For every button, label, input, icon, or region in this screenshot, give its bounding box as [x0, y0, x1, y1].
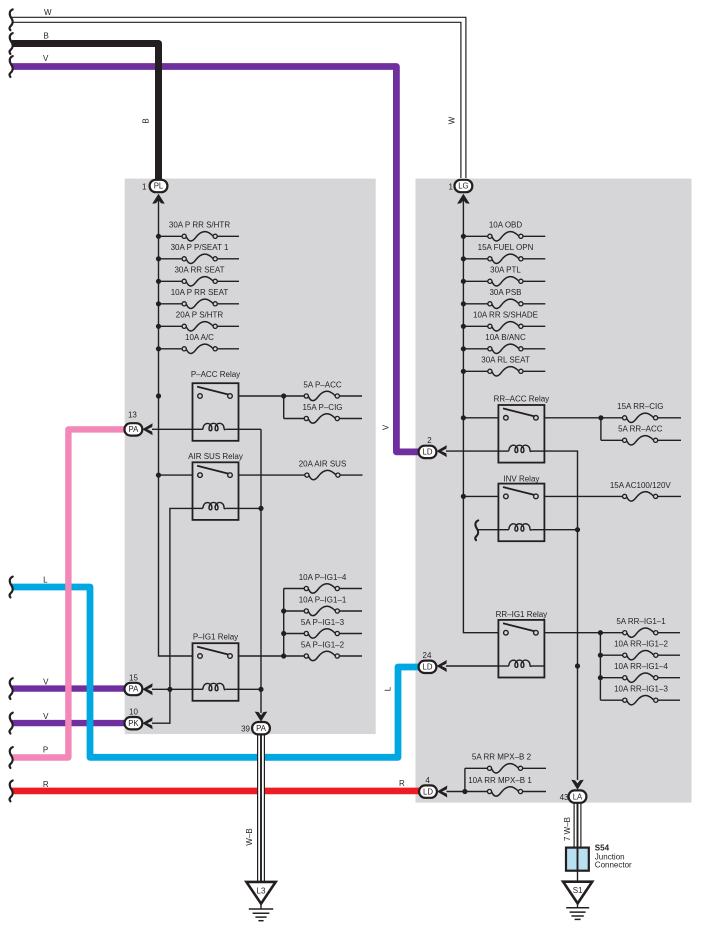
svg-text:P–ACC Relay: P–ACC Relay: [191, 370, 240, 379]
fuse 20A P S/HTR: [159, 325, 184, 327]
svg-text:L3: L3: [257, 886, 266, 895]
svg-text:13: 13: [128, 410, 137, 419]
svg-text:43: 43: [560, 793, 569, 802]
svg-text:V: V: [43, 712, 49, 721]
svg-text:39: 39: [241, 724, 250, 733]
svg-text:W: W: [447, 116, 456, 124]
node: bus to RR-ACC relay switch: [461, 415, 466, 420]
svg-text:4: 4: [425, 776, 430, 785]
svg-text:5A P–IG1–2: 5A P–IG1–2: [301, 640, 345, 649]
ground S1: [563, 882, 592, 904]
right relay block panel: [416, 179, 692, 803]
svg-text:10A RR–IG1–3: 10A RR–IG1–3: [614, 684, 668, 693]
fuse 15A RR-CIG: [601, 417, 623, 419]
wire: P-IG1 switch output: [239, 655, 284, 657]
relay P-IG1: box with switch contacts + coil: [193, 643, 239, 701]
ground feeder wire down to connector PA 39: [260, 429, 262, 713]
svg-text:10A RR S/SHADE: 10A RR S/SHADE: [473, 311, 538, 320]
connector PA pin 13: [125, 423, 143, 435]
wire: connector LD 24 to RR-IG1 coil: [446, 665, 498, 667]
wire: AIR SUS coil left to PA 15 / PK 10 feeder: [152, 508, 193, 723]
connector PA pin 39: [252, 722, 270, 734]
svg-text:10A P–IG1–1: 10A P–IG1–1: [299, 595, 347, 604]
svg-text:20A AIR SUS: 20A AIR SUS: [299, 460, 347, 469]
wire W-B from connector PA 39 to ground L3: [257, 734, 265, 882]
connector PK pin 10: [125, 717, 143, 729]
relay RR-IG1: box with switch contacts + coil: [498, 620, 544, 678]
svg-text:1: 1: [142, 182, 147, 191]
node: PA15/PK10/AIR SUS coil junction: [167, 687, 172, 692]
svg-text:R: R: [43, 780, 49, 789]
svg-text:15A P–CIG: 15A P–CIG: [302, 403, 342, 412]
svg-text:V: V: [43, 677, 49, 686]
svg-text:1: 1: [449, 182, 454, 191]
fuse 20A AIR SUS: [239, 474, 306, 476]
svg-text:Connector: Connector: [595, 861, 632, 870]
connector LD pin 4 arrow: [437, 786, 447, 798]
fuse 30A P P/SEAT 1: [159, 258, 184, 260]
connector LD pin 24: [419, 661, 437, 673]
node: bus to AIR SUS relay switch: [156, 473, 161, 478]
fuse 30A PSB: [463, 303, 488, 305]
wire break symbol, L wire: [10, 577, 13, 598]
junction connector S54: [566, 848, 589, 871]
connector LA pin 43 arrow: [571, 780, 584, 790]
svg-text:S54: S54: [595, 844, 610, 853]
wire P (pink): bottom-left entry up to connector PA 13: [12, 429, 126, 757]
connector PA pin 15: [125, 683, 143, 695]
wire bus to RR-ACC switch: [463, 417, 498, 419]
wire V (purple) to connector PA 15: [12, 685, 126, 691]
svg-text:INV Relay: INV Relay: [503, 475, 539, 484]
fuse 10A A/C: [159, 348, 184, 350]
wire: connector LD 2 to RR-ACC coil: [446, 450, 498, 452]
svg-text:AIR SUS Relay: AIR SUS Relay: [188, 452, 243, 461]
svg-text:P–IG1 Relay: P–IG1 Relay: [193, 632, 238, 641]
svg-text:2: 2: [427, 436, 432, 445]
fuse 30A PTL: [463, 280, 488, 282]
svg-text:S1: S1: [573, 886, 583, 895]
svg-text:30A RL SEAT: 30A RL SEAT: [481, 356, 530, 365]
wire: INV coil right to ground feeder: [544, 529, 578, 531]
wire: RR-ACC coil right to ground feeder: [544, 451, 578, 780]
relay RR-ACC: box with switch contacts + coil: [498, 405, 544, 463]
wire: P-ACC relay switch output: [239, 395, 284, 397]
svg-text:V: V: [381, 424, 390, 430]
svg-text:10A P RR SEAT: 10A P RR SEAT: [171, 288, 229, 297]
svg-text:P: P: [43, 746, 48, 755]
svg-text:15: 15: [129, 673, 138, 682]
wire R (red): bottom entry across to connector LD 4: [12, 788, 421, 795]
connector PK pin 10 arrow: [142, 717, 152, 729]
node: RR-ACC fuse feed: [598, 415, 603, 420]
svg-text:5A P–IG1–3: 5A P–IG1–3: [301, 618, 345, 627]
feeder for P-IG1 fuses: [283, 589, 285, 657]
svg-text:B: B: [44, 32, 49, 41]
svg-text:7 W–B: 7 W–B: [563, 817, 572, 841]
wire break symbol, W wire: [10, 9, 13, 30]
svg-text:10A RR–IG1–4: 10A RR–IG1–4: [614, 662, 668, 671]
svg-text:W: W: [44, 8, 52, 17]
fuse 10A P RR SEAT: [159, 303, 184, 305]
fuse 10A P–IG1–4: [284, 588, 305, 590]
relay AIR SUS: box with switch contacts + coil: [193, 462, 239, 520]
node: bus to INV relay switch: [461, 494, 466, 499]
svg-text:10A B/ANC: 10A B/ANC: [485, 333, 526, 342]
node: P-ACC fuse feed: [281, 393, 286, 398]
bus from connector PL 1 down to P-IG1 relay: [159, 196, 193, 656]
ground L3: [246, 882, 275, 904]
wire break symbol, INV coil: [475, 520, 478, 540]
feeder up to 5A RR MPX-B 2: [464, 768, 466, 791]
svg-text:L: L: [43, 576, 48, 585]
bus from connector LG 1 down to RR-IG1 relay: [463, 196, 498, 633]
fuse 30A RL SEAT: [463, 370, 488, 372]
fuse 10A RR–IG1–2: [600, 654, 623, 656]
svg-text:L: L: [383, 686, 392, 691]
connector PL pin 1 arrow: [152, 194, 165, 204]
svg-text:15A RR–CIG: 15A RR–CIG: [617, 402, 663, 411]
node: AIR SUS coil / ground feeder: [258, 506, 263, 511]
svg-text:30A P P/SEAT 1: 30A P P/SEAT 1: [171, 243, 229, 252]
fuse 5A RR-ACC: [601, 439, 623, 441]
left relay block panel: [125, 179, 376, 735]
svg-text:LG: LG: [458, 182, 468, 191]
node: RR MPX feed: [462, 789, 467, 794]
wire: RR-IG1 switch output: [544, 632, 601, 634]
wire break symbol, R wire: [10, 781, 13, 802]
svg-text:B: B: [142, 118, 151, 123]
svg-text:30A RR SEAT: 30A RR SEAT: [174, 266, 224, 275]
node: P-IG1 coil / ground feeder: [258, 687, 263, 692]
connector PA pin 15 arrow: [142, 683, 152, 695]
fuse 10A OBD: [463, 235, 488, 237]
svg-text:PA: PA: [256, 724, 267, 733]
fuse 5A RR–IG1–1: [600, 632, 623, 634]
wire L (cyan): left entry, down, across bottom, up to connector LD 24: [12, 587, 419, 757]
connector LA pin 43: [569, 790, 587, 802]
connector LG pin 1: [455, 180, 473, 192]
relay INV: box with switch contacts + coil: [498, 484, 544, 542]
svg-text:15A FUEL OPN: 15A FUEL OPN: [478, 243, 534, 252]
wire break symbol, V wire (PA 15): [10, 678, 13, 699]
svg-text:RR–IG1 Relay: RR–IG1 Relay: [496, 610, 548, 619]
fuse 15A FUEL OPN: [463, 258, 488, 260]
wire V (purple, top): entry across top, down to connector LD 2: [12, 67, 419, 452]
fuse 10A P–IG1–1: [284, 610, 305, 612]
node: bus to P-ACC relay switch: [156, 393, 161, 398]
connector PA pin 39 arrow: [255, 712, 268, 722]
svg-text:15A AC100/120V: 15A AC100/120V: [610, 481, 672, 490]
wire: RR-ACC switch output: [544, 417, 601, 419]
wire bus to INV switch: [463, 495, 498, 497]
wire S54 to ground S1: [577, 871, 579, 882]
node: INV coil / ground feeder: [575, 527, 580, 532]
svg-text:W–B: W–B: [245, 828, 254, 845]
svg-text:10A RR–IG1–2: 10A RR–IG1–2: [614, 639, 668, 648]
wire W-B from connector LA 43 to junction connector S54: [573, 803, 575, 848]
fuse 30A P RR S/HTR: [159, 235, 184, 237]
svg-text:10: 10: [129, 707, 138, 716]
connector LD pin 4: [419, 785, 437, 797]
svg-text:30A PSB: 30A PSB: [489, 288, 521, 297]
fuse 5A P–IG1–3: [284, 633, 305, 635]
svg-text:R: R: [399, 779, 405, 788]
relay P-ACC: box with switch contacts + coil: [193, 383, 239, 441]
svg-text:LD: LD: [423, 663, 433, 672]
connector PA pin 13 arrow: [142, 423, 152, 435]
fuse 10A RR–IG1–4: [600, 677, 623, 679]
connector LD pin 2: [419, 446, 437, 458]
svg-text:5A P–ACC: 5A P–ACC: [303, 380, 341, 389]
fuse 10A RR MPX-B 1: [465, 791, 488, 793]
svg-text:5A RR–ACC: 5A RR–ACC: [618, 425, 663, 434]
svg-text:RR–ACC Relay: RR–ACC Relay: [494, 394, 550, 403]
fuse 10A RR–IG1–3: [600, 699, 623, 701]
svg-text:30A P RR S/HTR: 30A P RR S/HTR: [169, 221, 230, 230]
fuse 5A P–IG1–2: [284, 655, 305, 657]
fuse 15A P-CIG: [284, 418, 305, 420]
wire: P-IG1 coil to ground feeder: [239, 688, 262, 690]
fuse 10A B/ANC: [463, 348, 488, 350]
svg-text:5A RR MPX–B 2: 5A RR MPX–B 2: [472, 753, 532, 762]
node: RR-IG1 coil / ground feeder: [575, 663, 580, 668]
feeder for RR-IG1 fuses: [599, 633, 601, 701]
svg-text:LD: LD: [423, 787, 433, 796]
fuse 15A AC100/120V: [544, 495, 623, 497]
svg-text:10A P–IG1–4: 10A P–IG1–4: [299, 573, 347, 582]
wire: feed down to 5A RR-ACC: [600, 418, 602, 441]
connector LD pin 24 arrow: [437, 660, 447, 672]
connector PL pin 1: [150, 180, 168, 192]
fuse 10A RR S/SHADE: [463, 325, 488, 327]
wire break symbol, P wire: [10, 747, 13, 768]
wire break symbol, B wire: [10, 33, 13, 54]
wire break symbol, V wire: [10, 56, 13, 77]
fuse 5A RR MPX-B 2: [465, 767, 488, 769]
svg-text:PA: PA: [128, 685, 139, 694]
fuse 30A RR SEAT: [159, 280, 184, 282]
fuse 5A P-ACC: [284, 395, 305, 397]
svg-text:24: 24: [423, 651, 432, 660]
wire bus to AIR SUS switch: [159, 474, 193, 476]
connector LG pin 1 arrow: [457, 194, 470, 204]
svg-text:V: V: [43, 54, 49, 63]
svg-text:10A RR MPX–B 1: 10A RR MPX–B 1: [468, 776, 532, 785]
svg-text:PK: PK: [128, 719, 139, 728]
wire: P-ACC coil to ground feeder: [239, 428, 262, 430]
svg-text:10A OBD: 10A OBD: [489, 221, 523, 230]
svg-text:PL: PL: [154, 182, 164, 191]
wire: connector PA 13 to P-ACC relay coil: [152, 428, 193, 430]
wire break symbol, V wire (PK 10): [10, 713, 13, 734]
wire: INV coil left with break symbol: [478, 529, 498, 531]
connector LD pin 2 arrow: [437, 445, 447, 457]
wire: feed down to 15A P-CIG: [283, 396, 285, 419]
svg-text:30A PTL: 30A PTL: [490, 266, 521, 275]
wire: PA 15 to P-IG1 coil: [152, 688, 193, 690]
svg-text:10A A/C: 10A A/C: [185, 333, 214, 342]
svg-text:20A P S/HTR: 20A P S/HTR: [176, 311, 224, 320]
svg-text:5A RR–IG1–1: 5A RR–IG1–1: [616, 617, 666, 626]
svg-text:PA: PA: [128, 425, 139, 434]
wire: AIR SUS coil right to ground feeder: [239, 507, 262, 509]
svg-text:LD: LD: [423, 448, 433, 457]
svg-text:LA: LA: [573, 792, 583, 801]
wire B (black, thick): top entry, down to connector PL 1: [12, 44, 159, 182]
wire W (white, double line): top entry, down to connector LG 1: [12, 17, 466, 178]
wire: connector LD 4 to RR MPX fuses: [447, 791, 465, 793]
wire V (purple) to connector PK 10: [12, 720, 126, 726]
